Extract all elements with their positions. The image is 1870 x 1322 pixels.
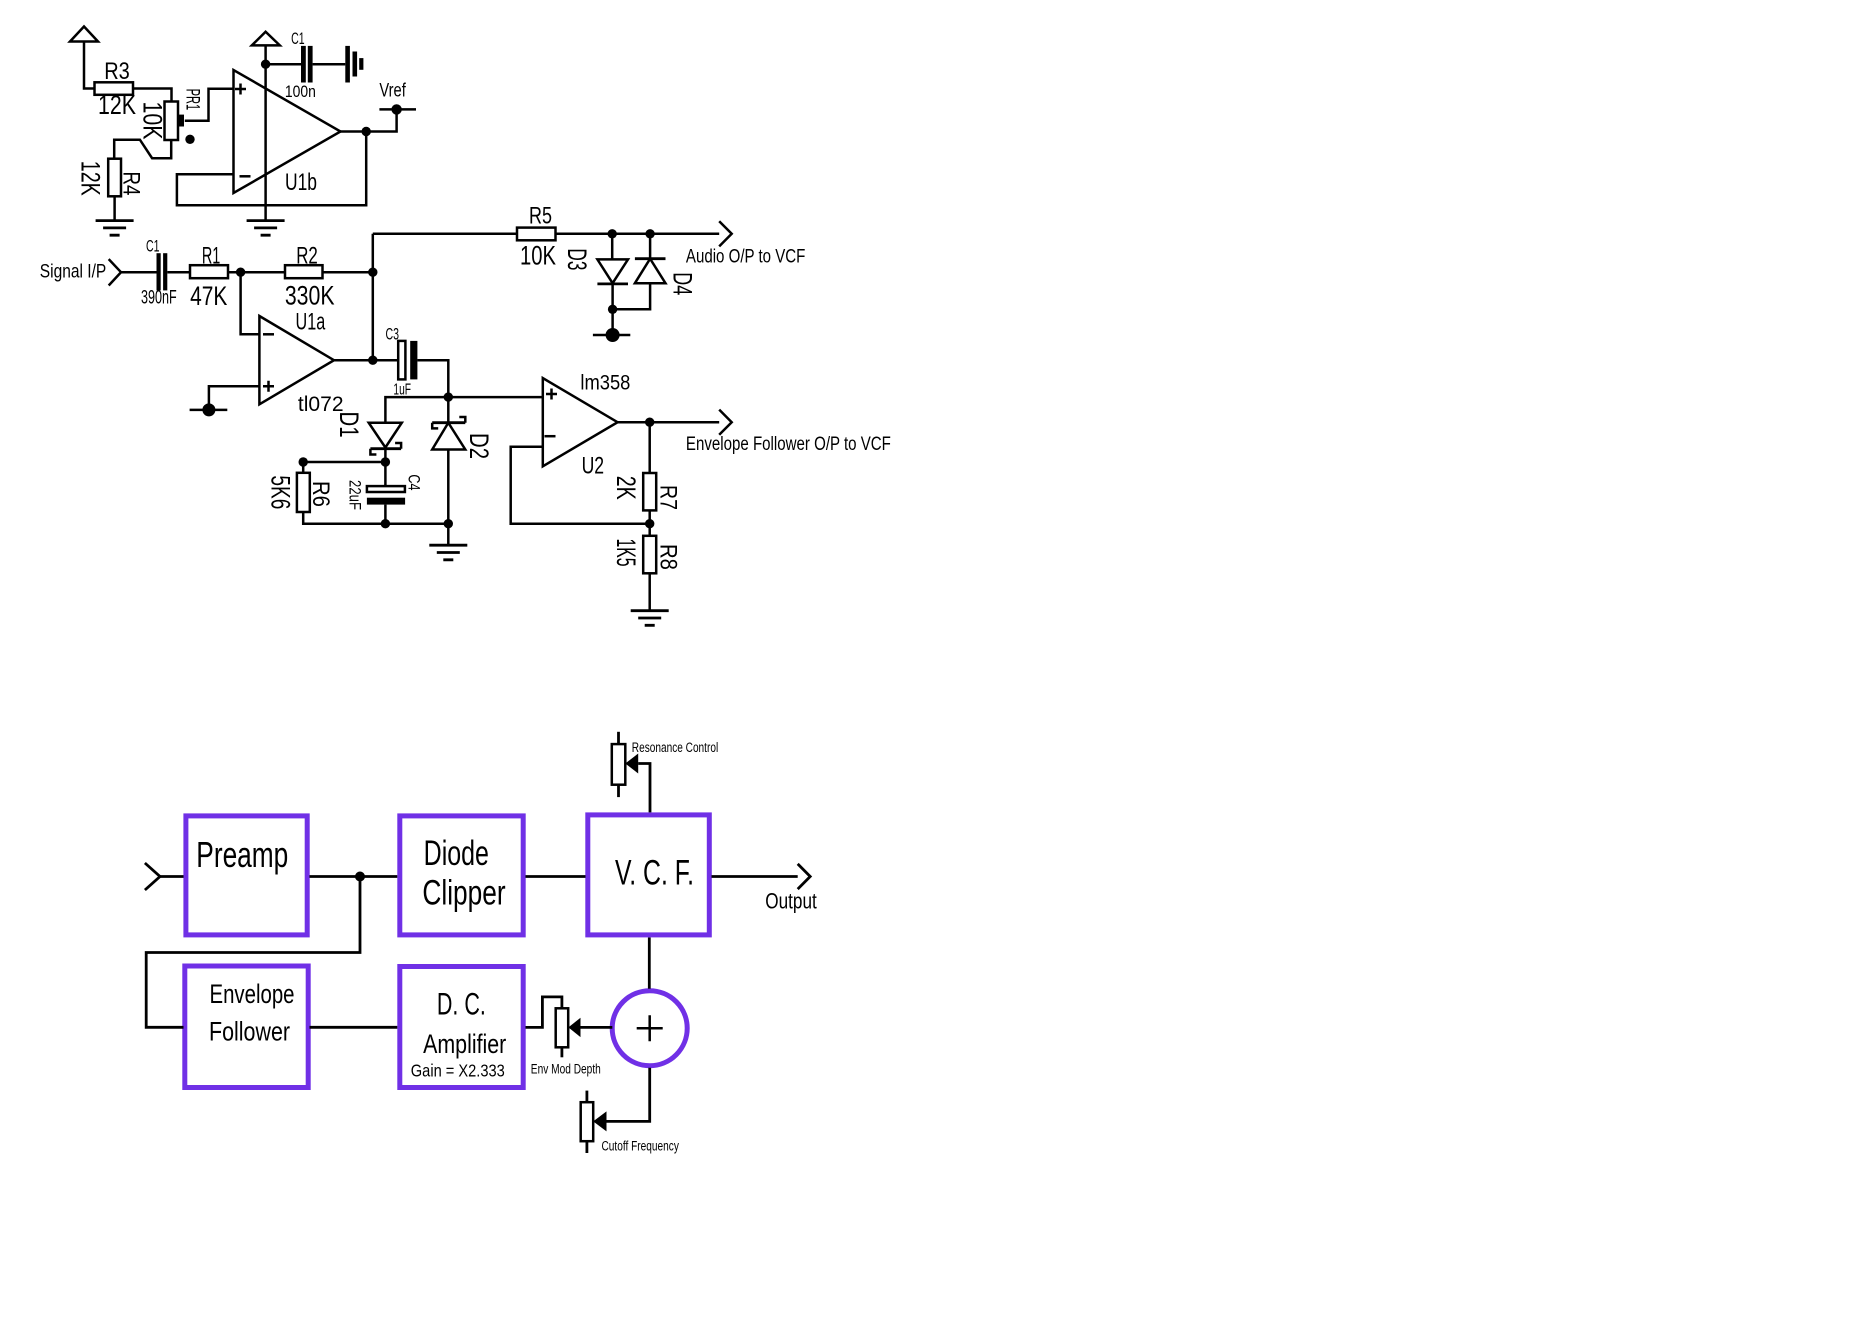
svg-text:D4: D4: [668, 272, 698, 295]
svg-text:1K5: 1K5: [611, 539, 641, 567]
svg-text:47K: 47K: [190, 281, 227, 311]
svg-text:lm358: lm358: [580, 372, 630, 395]
svg-text:PR1: PR1: [182, 89, 204, 111]
svg-text:12K: 12K: [98, 90, 136, 120]
svg-text:R8: R8: [655, 544, 682, 570]
svg-text:Diode: Diode: [424, 834, 489, 873]
svg-text:Signal I/P: Signal I/P: [40, 261, 107, 283]
svg-text:Cutoff Frequency: Cutoff Frequency: [602, 1138, 680, 1153]
svg-text:R4: R4: [118, 172, 145, 196]
svg-text:U1b: U1b: [285, 169, 317, 196]
svg-text:2K: 2K: [611, 476, 641, 500]
svg-text:100n: 100n: [285, 82, 316, 101]
svg-text:U2: U2: [582, 453, 605, 480]
svg-text:R3: R3: [104, 58, 130, 85]
svg-text:Vref: Vref: [379, 80, 406, 102]
svg-text:10K: 10K: [520, 241, 556, 271]
svg-text:D2: D2: [464, 433, 494, 459]
svg-text:D3: D3: [562, 248, 592, 270]
svg-text:Output: Output: [765, 889, 817, 914]
svg-text:Audio O/P to VCF: Audio O/P to VCF: [686, 245, 806, 267]
svg-text:5K6: 5K6: [266, 475, 296, 509]
svg-text:330K: 330K: [285, 281, 335, 311]
svg-text:R1: R1: [202, 243, 221, 270]
svg-text:R2: R2: [296, 243, 318, 270]
svg-text:390nF: 390nF: [141, 288, 177, 309]
svg-text:D. C.: D. C.: [437, 986, 486, 1022]
svg-text:Amplifier: Amplifier: [423, 1029, 506, 1059]
svg-text:U1a: U1a: [296, 309, 326, 336]
svg-text:Resonance Control: Resonance Control: [632, 740, 718, 755]
svg-text:C1: C1: [146, 237, 160, 256]
svg-text:V. C. F.: V. C. F.: [615, 853, 694, 893]
svg-text:Env Mod Depth: Env Mod Depth: [531, 1062, 601, 1077]
svg-text:Follower: Follower: [209, 1017, 290, 1047]
svg-text:C4: C4: [405, 474, 424, 490]
svg-text:D1: D1: [334, 412, 364, 438]
svg-text:R5: R5: [529, 203, 552, 230]
svg-text:Gain = X2.333: Gain = X2.333: [411, 1061, 505, 1081]
svg-text:Envelope: Envelope: [210, 979, 295, 1009]
svg-text:Clipper: Clipper: [422, 874, 505, 913]
svg-text:Envelope Follower O/P to VCF: Envelope Follower O/P to VCF: [686, 433, 891, 455]
svg-text:R6: R6: [307, 481, 334, 507]
svg-text:12K: 12K: [76, 161, 106, 196]
svg-text:Preamp: Preamp: [196, 834, 288, 875]
svg-text:10K: 10K: [138, 102, 168, 140]
svg-text:R7: R7: [655, 485, 682, 510]
svg-text:22uF: 22uF: [346, 480, 365, 510]
svg-text:C1: C1: [291, 29, 305, 48]
svg-text:C3: C3: [385, 325, 399, 344]
